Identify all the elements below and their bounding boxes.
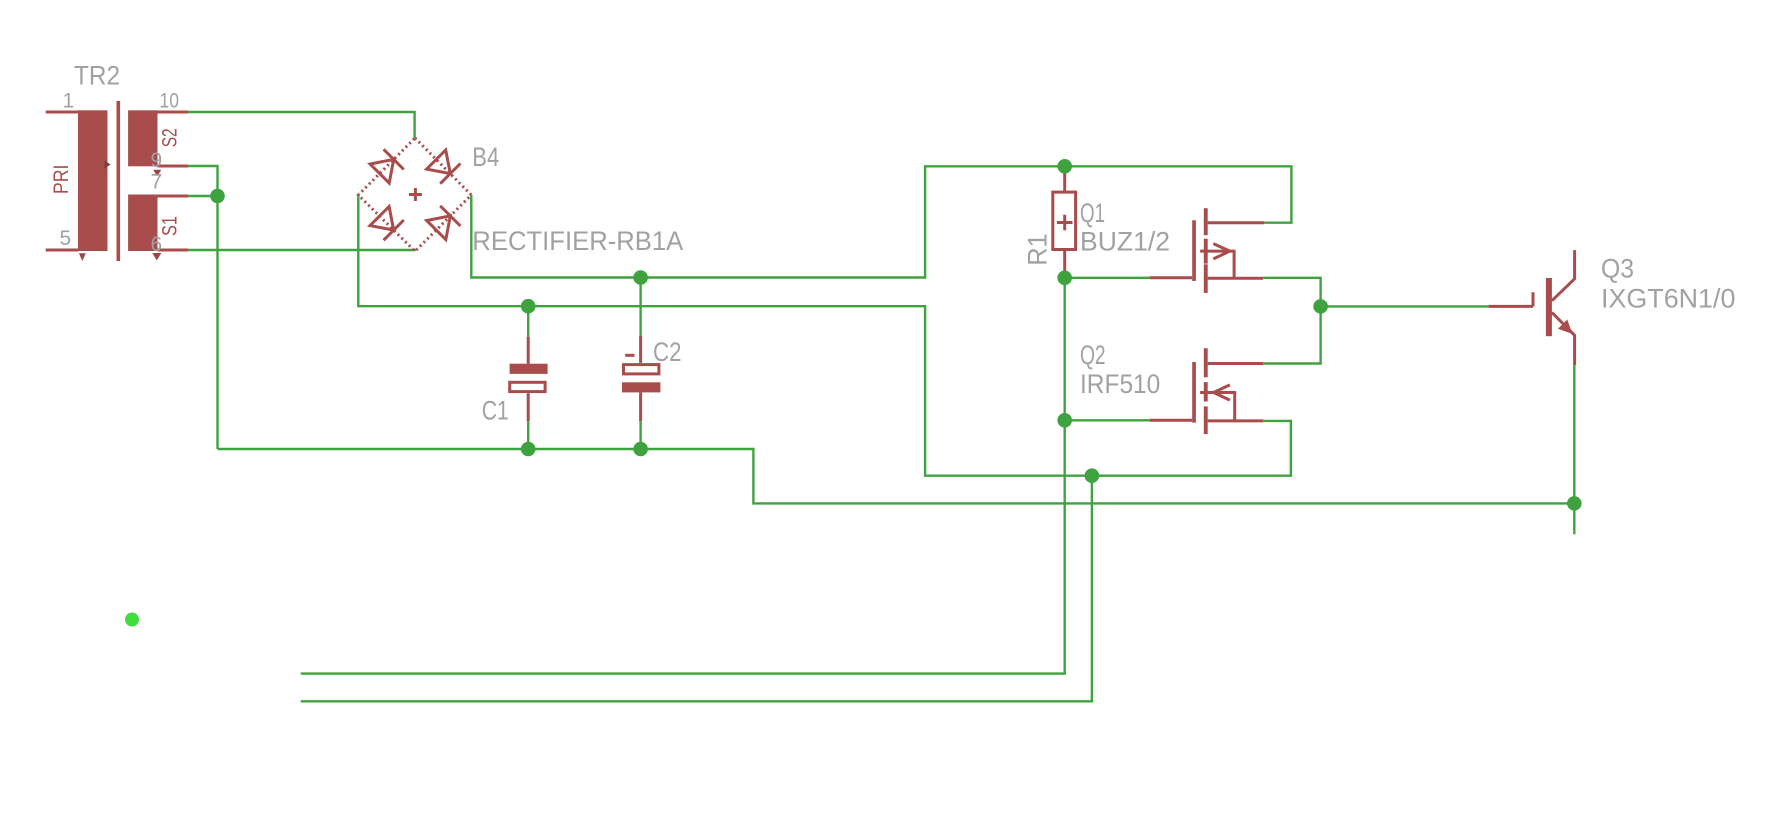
svg-text:IXGT6N1/0: IXGT6N1/0	[1601, 284, 1735, 314]
wire node to Q2 drain	[1263, 306, 1320, 363]
svg-text:Q2: Q2	[1080, 340, 1106, 370]
secondary winding S2	[128, 110, 157, 166]
C1 top plate	[510, 364, 548, 374]
plus mark	[409, 188, 422, 201]
pin 5 wire	[46, 249, 78, 252]
Q2 gate pin	[1150, 419, 1192, 422]
diode D-topleft	[370, 159, 394, 183]
pin 9 wire	[158, 165, 189, 168]
node Q3 emitter junction	[1567, 496, 1582, 511]
wire Q3 emitter down	[1573, 365, 1575, 534]
Q2 drain pin	[1208, 362, 1264, 365]
node C1 bottom junction	[521, 442, 536, 457]
diode D-topright	[427, 150, 451, 174]
R1 top pin	[1063, 166, 1066, 192]
wire bottom rail tap down	[301, 476, 1092, 702]
Q2 gate bar	[1192, 362, 1196, 423]
Q1 source pin	[1208, 277, 1264, 280]
R1 plus mark	[1057, 215, 1073, 231]
wire Q1 gate	[1065, 277, 1150, 279]
wire Q1 source to node	[1263, 278, 1320, 307]
svg-text:C2: C2	[653, 337, 682, 367]
Q2 bulk	[1200, 393, 1235, 421]
pin 10 wire	[158, 111, 189, 114]
Q1 bulk arrow	[1213, 244, 1230, 259]
C1 bottom pin	[527, 393, 530, 421]
transistor Q3	[1489, 250, 1736, 365]
Q1 channel	[1204, 208, 1208, 235]
svg-text:R1: R1	[1023, 233, 1053, 266]
node stray dot	[125, 613, 139, 627]
wire C2 top	[639, 278, 641, 336]
diode D-bottomright	[427, 216, 451, 240]
svg-text:7: 7	[151, 171, 163, 194]
svg-text:S2: S2	[159, 128, 182, 147]
node Q2 gate junction	[1057, 413, 1072, 428]
svg-text:S1: S1	[159, 216, 182, 236]
svg-text:10: 10	[160, 90, 180, 113]
wire pin 9 to center tap	[188, 166, 217, 196]
wire C1 bottom	[527, 421, 529, 449]
node C2 top junction	[633, 270, 648, 285]
diode D-bottomleft	[370, 207, 394, 231]
pin 9 arrow	[153, 170, 161, 177]
svg-text:Q3: Q3	[1601, 254, 1634, 284]
transistor Q2	[1080, 340, 1263, 434]
bridge rectifier B4	[358, 138, 683, 256]
svg-text:C1: C1	[482, 395, 509, 425]
node center tap junction	[210, 189, 225, 204]
primary winding	[78, 110, 108, 251]
Q2 bulk arrow	[1214, 385, 1230, 400]
transformer TR2	[46, 60, 189, 261]
node R1 bottom junction	[1057, 271, 1072, 286]
Q3 emitter arrow	[1558, 320, 1573, 335]
secondary winding S1	[128, 195, 157, 252]
Q2 channel	[1204, 348, 1208, 377]
svg-text:Q1: Q1	[1080, 198, 1105, 228]
wire Q2 gate	[1065, 419, 1150, 421]
wire bridge minus rail	[358, 195, 1291, 476]
Q1 gate pin	[1150, 276, 1192, 279]
Q3 base pin	[1489, 292, 1533, 306]
svg-text:RECTIFIER-RB1A: RECTIFIER-RB1A	[472, 226, 683, 256]
svg-text:1: 1	[63, 90, 75, 113]
wire bottom rail to Q3 emitter	[218, 449, 1575, 503]
Q1 gate bar	[1192, 220, 1196, 281]
Q1 bulk	[1200, 251, 1234, 278]
Q3 bar	[1546, 278, 1552, 336]
pin 5 arrow	[79, 253, 86, 261]
wire C1 top	[527, 306, 529, 337]
Q3 collector	[1552, 250, 1575, 301]
Q2 source pin	[1208, 419, 1264, 422]
wire center tap down	[216, 196, 218, 449]
node C2 bottom junction	[633, 442, 648, 457]
svg-text:B4: B4	[472, 142, 499, 172]
C2 bottom plate	[622, 382, 660, 392]
wire node to Q3 base	[1321, 305, 1489, 307]
resistor R1	[1023, 166, 1076, 277]
node top rail junction at R1	[1057, 159, 1072, 174]
C2 top pin	[639, 336, 642, 363]
capacitor C1	[482, 337, 548, 426]
Q3 emitter	[1552, 313, 1575, 366]
core	[117, 101, 121, 261]
R1 body	[1053, 192, 1076, 249]
C2 minus sign	[625, 354, 634, 357]
svg-text:5: 5	[60, 227, 72, 250]
svg-text:IRF510: IRF510	[1080, 369, 1160, 399]
svg-text:PRI: PRI	[50, 165, 73, 195]
svg-text:9: 9	[151, 149, 163, 172]
pin 7 wire	[158, 195, 189, 198]
pin 6 arrow	[152, 253, 161, 260]
wire pin 7 to center tap	[188, 195, 217, 197]
C1 top pin	[527, 337, 530, 364]
polarity notch	[105, 161, 111, 169]
transistor Q1	[1080, 198, 1264, 293]
pin 1 wire	[46, 111, 78, 114]
node C1 top junction	[521, 299, 536, 314]
Q1 drain pin	[1208, 221, 1265, 224]
C1 bottom plate	[510, 382, 545, 391]
diamond outline	[358, 138, 471, 251]
node bottom rail junction	[1085, 468, 1100, 483]
svg-text:TR2: TR2	[74, 60, 120, 90]
wire gate rail down with taps	[301, 278, 1065, 674]
pin 6 wire	[158, 249, 189, 252]
wire bridge plus rail	[471, 166, 1291, 277]
wire C2 bottom	[639, 421, 641, 449]
wire pin 6 to bridge bottom	[188, 250, 414, 251]
wire pin10 to bridge top	[188, 112, 414, 138]
node Q1 source junction	[1313, 299, 1328, 314]
C2 top plate	[624, 365, 659, 374]
capacitor C2	[622, 336, 682, 421]
R1 bottom pin	[1063, 250, 1066, 278]
C2 bottom pin	[639, 392, 642, 421]
svg-text:BUZ1/2: BUZ1/2	[1080, 227, 1170, 257]
